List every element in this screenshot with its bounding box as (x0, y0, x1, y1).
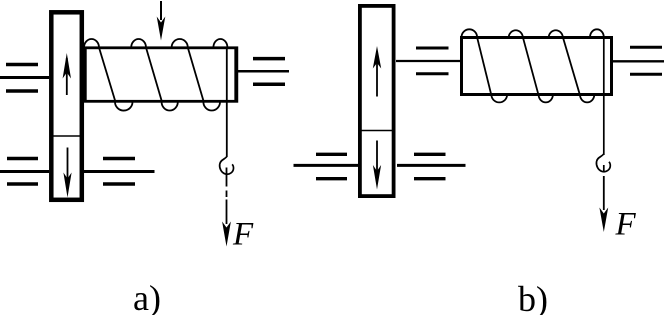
drum A right bearing top line (253, 57, 285, 61)
drum A coil top arc 1 (84, 39, 99, 48)
lower-right bearing top line (fig b) (414, 153, 446, 156)
top input arrow (157, 1, 166, 41)
lower-left bearing top line (fig b) (316, 153, 347, 156)
lower-left bearing bottom line (7, 182, 38, 186)
lower-right bearing shaft line (fig b) (397, 164, 466, 167)
lower-right bearing bottom line (fig b) (414, 177, 446, 180)
drum A rope wrap edge + hanging rope (226, 48, 228, 157)
lower-left bearing bottom line (fig b) (316, 177, 347, 180)
svg-text:a): a) (133, 278, 161, 315)
wheel A divider line (51, 135, 82, 137)
wheel B down arrow (373, 141, 381, 190)
wheel B (vertical gear rectangle) (360, 6, 394, 196)
drum B coil top arc 4 (590, 29, 604, 37)
drum A coil top arc 4 (213, 39, 227, 48)
svg-text:b): b) (518, 279, 548, 315)
drum B coil bottom arc 2 (539, 95, 553, 102)
drum B coil top arc 2 (509, 30, 523, 37)
drum B coil diagonal 3 (563, 37, 580, 95)
drum B coil bottom arc 1 (491, 95, 507, 102)
lower-left bearing shaft line (fig b) (294, 164, 359, 167)
lower-left bearing top line (7, 157, 38, 161)
drum A coil bottom arc 2 (162, 102, 178, 111)
hook B (596, 154, 610, 172)
upper-left bearing shaft line (0, 76, 49, 79)
drum A coil top arc 2 (131, 39, 146, 48)
drum A coil diagonal 2 (146, 48, 162, 103)
drum B right bearing top line (630, 46, 662, 49)
drum B coil bottom arc 3 (580, 95, 594, 102)
drum B coil diagonal 2 (523, 37, 539, 95)
drum A right shaft line (238, 70, 289, 73)
drum B right shaft line (613, 60, 664, 62)
drum B body (462, 38, 612, 95)
drum A coil diagonal 1 (99, 48, 116, 103)
lower-left bearing shaft line (0, 170, 49, 173)
drum A body (85, 48, 237, 102)
drum A coil top arc 3 (172, 39, 188, 48)
lower-right bearing top line (103, 157, 135, 161)
drum B right bearing bottom line (630, 73, 662, 76)
shaft between wheel B and drum B (396, 60, 460, 62)
wheel A (vertical gear rectangle) (51, 12, 82, 200)
upper-left bearing top line (6, 63, 38, 67)
drum B coil top arc 3 (549, 30, 563, 37)
drum A coil diagonal 3 (188, 48, 204, 103)
wheel A down arrow (63, 148, 71, 198)
svg-text:F: F (232, 217, 254, 253)
drum A coil bottom arc 1 (115, 102, 133, 111)
wheel B divider line (360, 130, 394, 132)
drum A right bearing bottom line (253, 83, 285, 87)
drum B coil diagonal 1 (477, 37, 491, 95)
lower-right bearing shaft line (84, 170, 155, 173)
force arrow F (fig a) (222, 168, 231, 247)
wheel A up arrow (63, 53, 71, 95)
wheel B up arrow (373, 46, 381, 97)
drum A coil bottom arc 3 (203, 102, 220, 111)
svg-text:F: F (615, 207, 637, 243)
drum B coil top arc 1 (461, 29, 477, 37)
mid bearing bottom line (fig b) (416, 72, 449, 75)
upper-left bearing bottom line (6, 89, 38, 93)
drum B rope wrap edge + hanging rope (603, 38, 605, 156)
drum A right cap edge (234, 47, 238, 103)
mid bearing top line (fig b) (416, 47, 449, 50)
lower-right bearing bottom line (103, 182, 135, 186)
force arrow F (fig b) (599, 165, 608, 232)
hook A (220, 157, 234, 175)
